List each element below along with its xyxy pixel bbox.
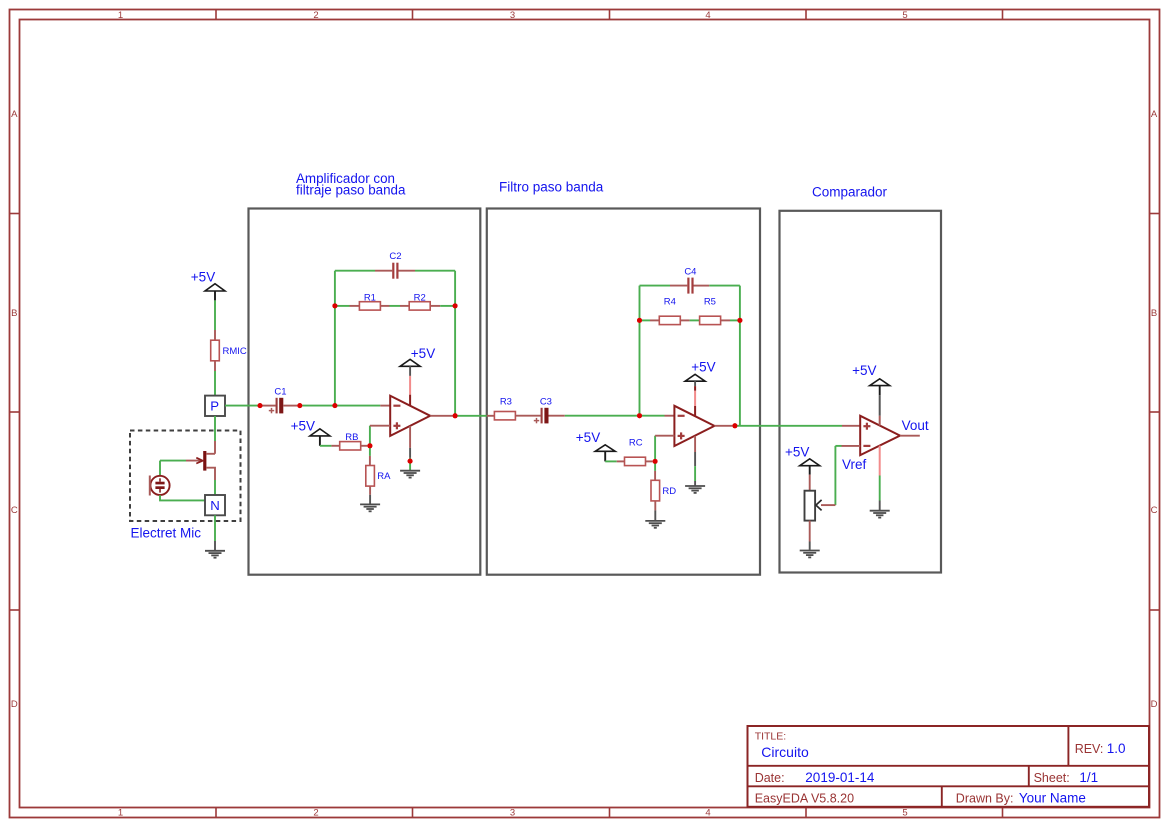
svg-text:4: 4 xyxy=(705,808,710,819)
frame column numbers 1-5 xyxy=(118,10,908,819)
node P xyxy=(205,396,225,416)
wire RB to junction xyxy=(361,445,368,447)
label Vout xyxy=(902,418,929,433)
capacitor C1 xyxy=(269,386,287,413)
electret mic capsule xyxy=(150,476,170,496)
junction dot RB RA plus xyxy=(367,443,372,448)
capacitor C2 xyxy=(389,251,401,279)
wire RD to ground xyxy=(654,501,656,520)
svg-text:REV:: REV: xyxy=(1075,742,1104,756)
dashed box electret mic xyxy=(130,431,241,522)
junction dot R4 row left xyxy=(637,318,642,323)
svg-text:A: A xyxy=(11,109,18,120)
junction dot R2 row right xyxy=(453,303,458,308)
title block row divider 1 xyxy=(748,765,1150,767)
resistor RC xyxy=(625,438,646,466)
label Electret Mic xyxy=(131,526,202,541)
svg-text:R3: R3 xyxy=(500,396,512,407)
wire junction down to RD xyxy=(654,461,656,480)
svg-text:C: C xyxy=(11,505,18,516)
svg-text:P: P xyxy=(210,399,219,414)
svg-text:Vout: Vout xyxy=(902,418,929,433)
wire C3 to feedback tap xyxy=(549,415,640,417)
svg-text:+5V: +5V xyxy=(852,363,876,378)
wire feedback left vertical (block1) xyxy=(334,271,336,406)
op-amp U1 output wire xyxy=(430,415,452,417)
wire JFET source to N xyxy=(214,480,216,495)
resistor RA xyxy=(366,466,391,487)
junction dot RC RD plus xyxy=(653,459,658,464)
svg-text:+5V: +5V xyxy=(691,359,715,374)
svg-text:R2: R2 xyxy=(414,292,426,303)
wire junction up to plus input xyxy=(370,426,390,446)
resistor RD xyxy=(651,480,676,501)
wire mic to N xyxy=(160,495,205,500)
wire C1 dot into amplifier box xyxy=(302,405,335,407)
junction dot U2 output xyxy=(732,423,737,428)
wire RMIC to P xyxy=(214,361,216,396)
power flag +5V (Vref pot) xyxy=(785,445,820,475)
svg-text:+5V: +5V xyxy=(411,346,435,361)
resistor R5 xyxy=(700,297,721,325)
wire +5V pin to U1 xyxy=(409,376,411,406)
junction dot U1 vee xyxy=(408,459,413,464)
wire N to ground xyxy=(214,515,216,550)
power flag +5V (op-amp U1) xyxy=(400,346,435,376)
wire R3 to C3 xyxy=(515,415,540,417)
capacitor C3 xyxy=(534,396,552,423)
power flag +5V (comparator) xyxy=(852,363,890,395)
wire +5V pin to U2 xyxy=(694,386,696,416)
wire minus input U3 xyxy=(835,445,860,447)
title block sheet divider xyxy=(1028,766,1030,787)
wire U2 vee to ground xyxy=(694,436,696,486)
junction dot R5 row right xyxy=(737,318,742,323)
svg-text:1: 1 xyxy=(118,10,123,21)
svg-text:+5V: +5V xyxy=(191,269,215,284)
wire R1 R2 row xyxy=(335,305,455,307)
resistor R4 xyxy=(659,297,680,325)
wire R4 R5 row xyxy=(640,319,740,321)
title block row divider 2 xyxy=(748,785,1150,787)
wire P down to JFET drain xyxy=(214,416,216,454)
title block REV divider xyxy=(1067,726,1069,766)
resistor R3 xyxy=(494,396,515,420)
resistor RMIC xyxy=(211,340,247,361)
svg-text:Circuito: Circuito xyxy=(761,744,809,760)
power flag +5V (op-amp U2) xyxy=(685,359,716,386)
power flag +5V (mic) xyxy=(191,269,225,300)
junction dot left of C1 xyxy=(258,403,263,408)
svg-text:B: B xyxy=(11,308,17,319)
title label REV: xyxy=(1075,742,1104,756)
junction dot R1 row left xyxy=(332,303,337,308)
wire feedback right vertical (block1) xyxy=(454,271,456,416)
wire RA to ground xyxy=(369,486,371,504)
wire main into op-amp2 minus xyxy=(640,415,675,417)
svg-text:2: 2 xyxy=(313,10,318,21)
junction dot feedback tap (block1) xyxy=(332,403,337,408)
comparator output wire Vout xyxy=(900,435,920,437)
title label Drawn By: xyxy=(956,791,1014,805)
node N xyxy=(205,495,225,515)
svg-text:Your Name: Your Name xyxy=(1019,790,1086,805)
svg-text:RA: RA xyxy=(377,471,391,482)
svg-text:1/1: 1/1 xyxy=(1079,770,1098,785)
svg-text:EasyEDA V5.8.20: EasyEDA V5.8.20 xyxy=(755,791,854,805)
junction dot U1 output xyxy=(453,413,458,418)
svg-text:+5V: +5V xyxy=(291,419,315,434)
wire U1 vee to ground xyxy=(409,426,411,471)
wire +5V to RMIC xyxy=(214,300,216,340)
title label TITLE: xyxy=(755,731,787,743)
op-amp U1 xyxy=(390,396,430,436)
ground (mic) xyxy=(205,551,225,558)
op-amp U2 xyxy=(674,406,714,446)
wire U1 output to filter box xyxy=(455,415,494,417)
svg-text:RMIC: RMIC xyxy=(223,346,247,357)
svg-text:2019-01-14: 2019-01-14 xyxy=(805,770,875,785)
svg-text:Comparador: Comparador xyxy=(812,184,888,199)
svg-text:C2: C2 xyxy=(389,251,401,262)
op-amp U2 output wire xyxy=(714,425,732,427)
svg-text:Electret Mic: Electret Mic xyxy=(131,526,202,541)
section label Filtro paso banda xyxy=(499,180,604,195)
ground (potentiometer) xyxy=(800,551,820,558)
svg-text:+5V: +5V xyxy=(785,445,809,460)
svg-text:filtraje paso banda: filtraje paso banda xyxy=(296,183,406,198)
transistor JFET (mic) xyxy=(186,451,215,480)
svg-text:5: 5 xyxy=(902,10,907,21)
svg-text:1: 1 xyxy=(118,808,123,819)
wire junction down to RA xyxy=(369,446,371,466)
wire +5V pin to U3 xyxy=(879,395,881,425)
title value Circuito xyxy=(761,744,809,760)
wire dot to C1 xyxy=(263,405,276,407)
wire C2 row xyxy=(335,270,455,272)
resistor R2 xyxy=(409,292,430,310)
svg-text:2: 2 xyxy=(313,808,318,819)
svg-text:C3: C3 xyxy=(540,396,552,407)
title value 1/1 xyxy=(1079,770,1098,785)
resistor R1 xyxy=(359,292,380,310)
title label EasyEDA V5.8.20 xyxy=(755,791,854,805)
wire C1 to dot xyxy=(283,405,297,407)
power flag +5V (RB) xyxy=(291,419,330,446)
wire U2 output to comparator box xyxy=(735,425,860,427)
frame row letters A-D xyxy=(11,109,1158,710)
wire +5V to RC xyxy=(605,460,624,462)
wire junction up to plus input U2 xyxy=(655,436,674,462)
svg-text:3: 3 xyxy=(510,808,515,819)
wire potentiometer to ground xyxy=(809,521,811,550)
svg-text:Vref: Vref xyxy=(842,457,867,472)
wire U3 vee to ground xyxy=(879,446,881,511)
resistor RB xyxy=(340,432,361,450)
wire RC to junction xyxy=(646,460,653,462)
junction dot feedback tap (block2) xyxy=(637,413,642,418)
label Vref xyxy=(842,457,867,472)
svg-text:RD: RD xyxy=(662,486,676,497)
title value 1.0 xyxy=(1107,741,1126,756)
potentiometer RV1 xyxy=(805,491,822,521)
comparator U3 xyxy=(860,416,900,455)
svg-text:C1: C1 xyxy=(274,386,286,397)
svg-text:RC: RC xyxy=(629,438,643,449)
wire P to C1 xyxy=(225,405,258,407)
svg-text:N: N xyxy=(210,498,220,513)
power flag +5V (RC) xyxy=(576,430,615,462)
section box filter xyxy=(487,209,760,575)
svg-text:5: 5 xyxy=(902,808,907,819)
svg-text:4: 4 xyxy=(705,10,710,21)
title block outline xyxy=(748,726,1150,807)
junction dots overlay xyxy=(258,303,743,464)
svg-text:C: C xyxy=(1151,505,1158,516)
svg-text:R5: R5 xyxy=(704,297,716,308)
svg-text:3: 3 xyxy=(510,10,515,21)
ground (RD) xyxy=(645,521,665,528)
section label Comparador xyxy=(812,184,888,199)
svg-text:R4: R4 xyxy=(664,297,676,308)
wire feedback right vertical (block2) xyxy=(739,286,741,426)
section box comparator xyxy=(780,211,942,573)
ground (RA) xyxy=(360,504,380,511)
title value Your Name xyxy=(1019,790,1086,805)
svg-text:RB: RB xyxy=(345,432,358,443)
svg-text:D: D xyxy=(1151,699,1158,710)
title block drawnby divider xyxy=(941,786,943,807)
title label Sheet: xyxy=(1034,771,1070,785)
wire gate to mic xyxy=(160,461,186,476)
svg-text:Filtro paso banda: Filtro paso banda xyxy=(499,180,604,195)
svg-text:Date:: Date: xyxy=(755,771,785,785)
svg-text:Drawn By:: Drawn By: xyxy=(956,791,1014,805)
wire +5V to potentiometer xyxy=(809,475,811,491)
svg-text:Sheet:: Sheet: xyxy=(1034,771,1070,785)
svg-text:A: A xyxy=(1151,109,1158,120)
svg-text:+5V: +5V xyxy=(576,430,600,445)
wire main into op-amp minus xyxy=(335,405,390,407)
wire +5V to RB xyxy=(320,445,339,447)
title label Date: xyxy=(755,771,785,785)
svg-text:B: B xyxy=(1151,308,1157,319)
wire Vref vertical xyxy=(821,446,835,505)
section label Amplificador con filtraje paso banda xyxy=(296,171,406,198)
ground (comparator) xyxy=(870,511,890,518)
svg-text:TITLE:: TITLE: xyxy=(755,731,787,743)
svg-text:1.0: 1.0 xyxy=(1107,741,1126,756)
section box amplifier xyxy=(249,209,481,575)
svg-text:R1: R1 xyxy=(364,292,376,303)
ground (op-amp U2) xyxy=(685,486,705,493)
wire C4 row xyxy=(640,285,740,287)
svg-text:D: D xyxy=(11,699,18,710)
capacitor C4 xyxy=(684,266,696,293)
ground (op-amp U1) xyxy=(400,471,420,478)
junction dot right of C1 xyxy=(297,403,302,408)
title value 2019-01-14 xyxy=(805,770,875,785)
wire feedback left vertical (block2) xyxy=(639,286,641,416)
svg-text:C4: C4 xyxy=(684,266,696,277)
